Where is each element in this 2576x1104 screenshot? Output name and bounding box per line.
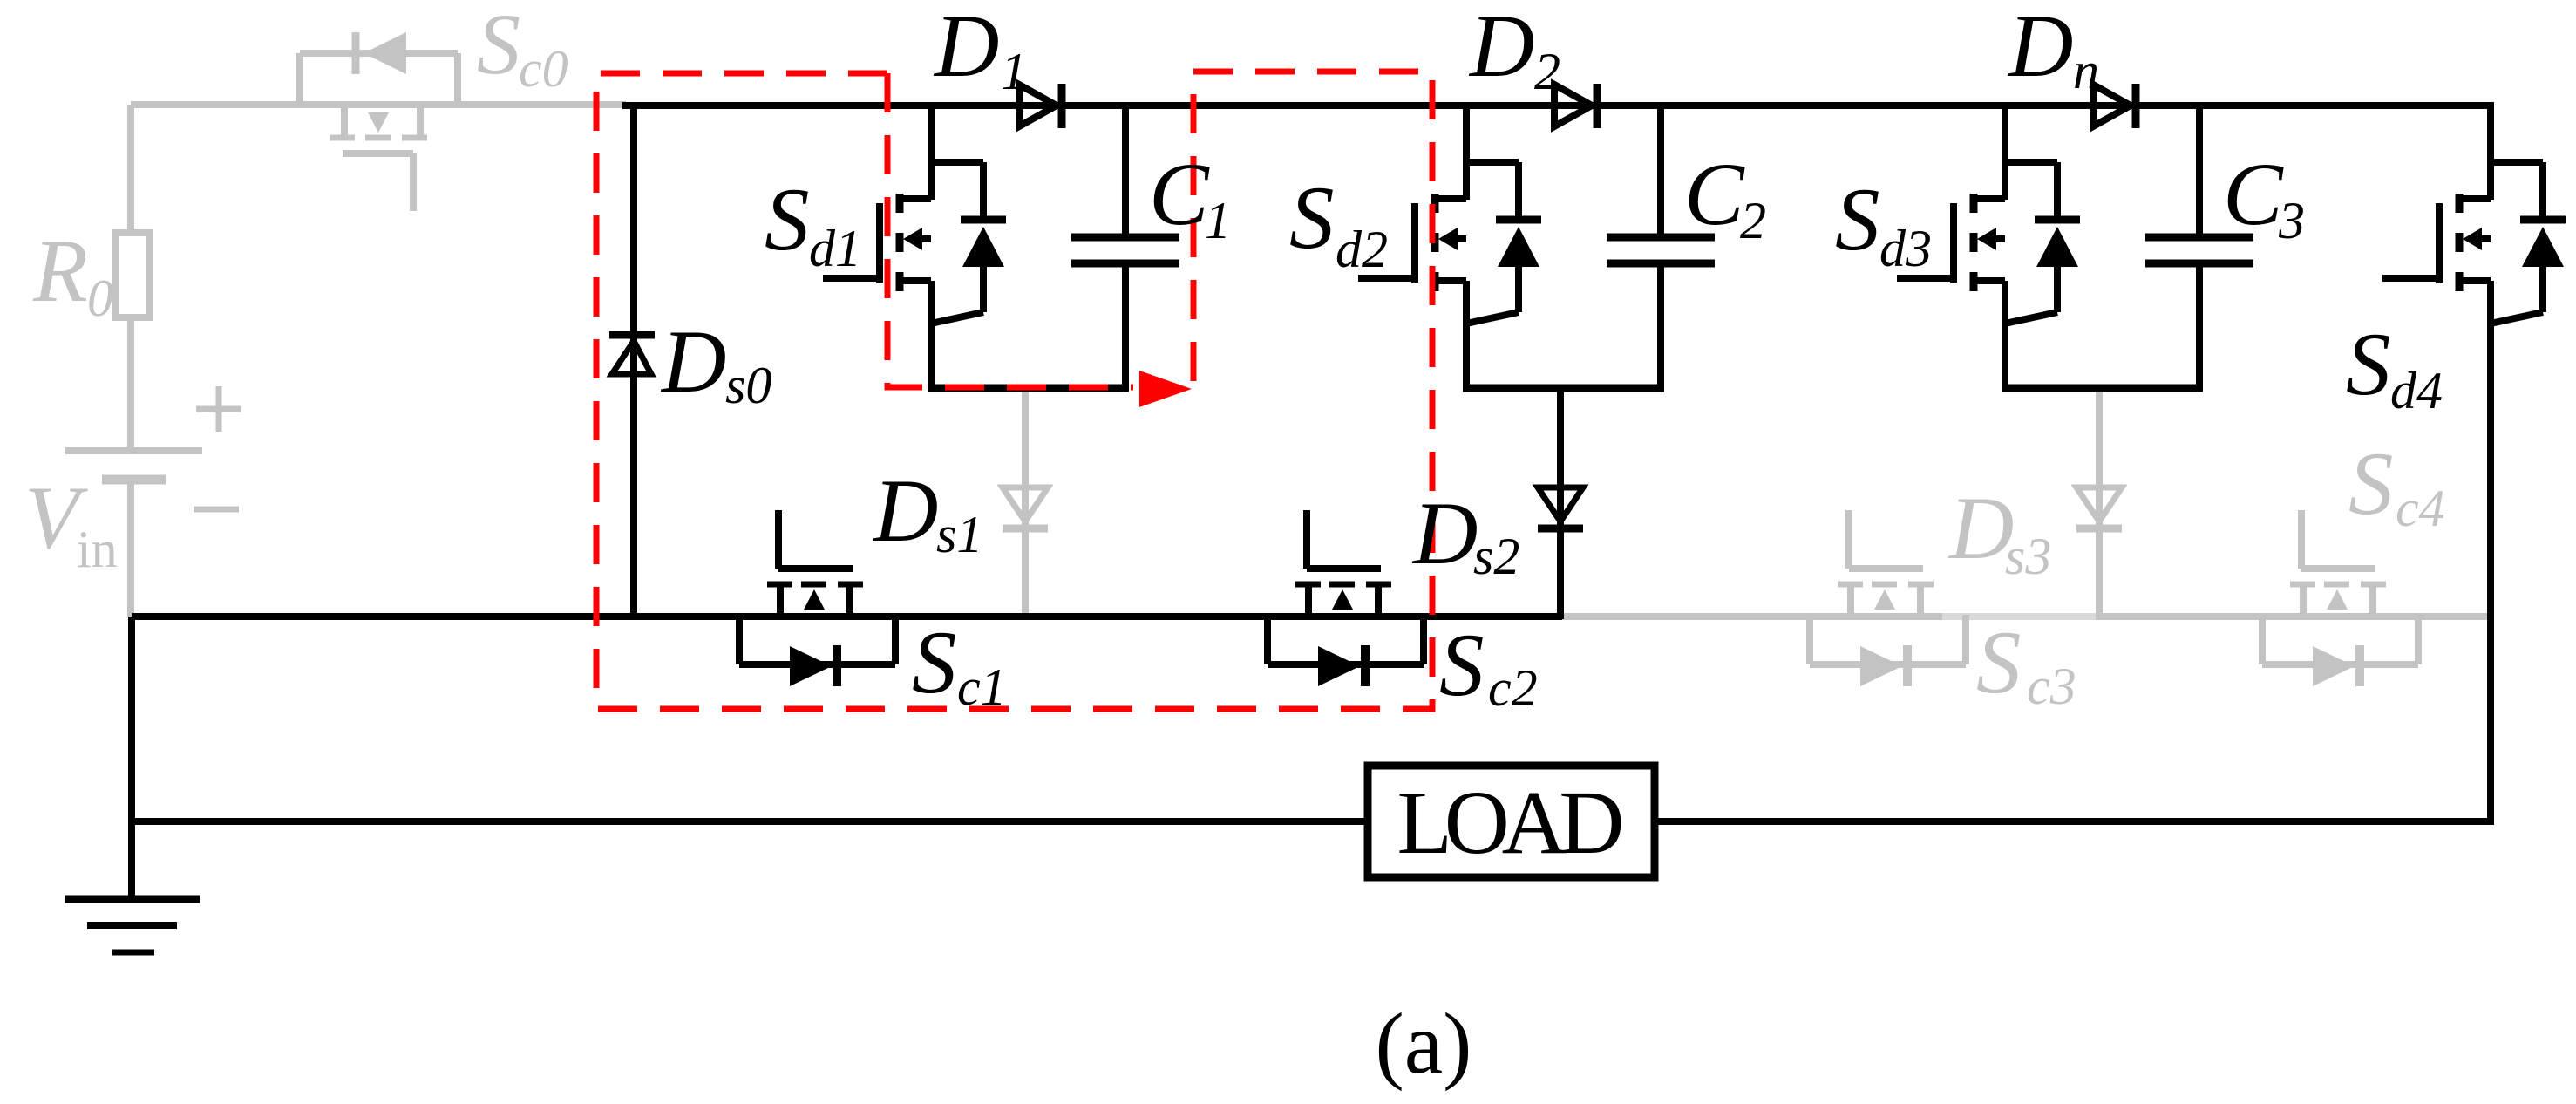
svg-text:c2: c2	[1488, 659, 1538, 717]
svg-text:S: S	[2346, 315, 2391, 414]
svg-text:S: S	[477, 0, 520, 92]
svg-text:c4: c4	[2396, 480, 2445, 537]
svg-text:0: 0	[87, 269, 113, 327]
svg-text:1: 1	[1001, 43, 1027, 100]
svg-text:D: D	[872, 461, 938, 561]
svg-text:c3: c3	[2027, 658, 2076, 715]
svg-text:in: in	[77, 521, 118, 578]
svg-text:D: D	[1411, 484, 1478, 583]
svg-text:2: 2	[1740, 192, 1766, 249]
svg-text:1: 1	[1205, 192, 1231, 249]
svg-text:d4: d4	[2390, 362, 2443, 419]
svg-text:S: S	[912, 613, 957, 712]
svg-text:c0: c0	[519, 40, 568, 98]
svg-text:s0: s0	[725, 357, 771, 414]
svg-text:D: D	[1468, 0, 1534, 96]
svg-text:S: S	[1835, 170, 1880, 269]
svg-text:D: D	[1947, 479, 2014, 578]
svg-text:d3: d3	[1879, 220, 1932, 277]
svg-text:LOAD: LOAD	[1397, 773, 1625, 873]
svg-text:C: C	[1149, 145, 1210, 244]
svg-text:D: D	[933, 0, 999, 96]
svg-text:d1: d1	[809, 220, 861, 277]
svg-text:C: C	[1684, 145, 1745, 244]
svg-text:S: S	[1289, 168, 1335, 268]
svg-text:D: D	[660, 312, 726, 412]
svg-text:S: S	[2348, 434, 2394, 534]
svg-text:d2: d2	[1336, 221, 1388, 278]
svg-text:s2: s2	[1473, 528, 1519, 585]
svg-text:2: 2	[1534, 43, 1560, 100]
svg-text:C: C	[2223, 145, 2284, 244]
svg-text:R: R	[32, 221, 88, 321]
svg-text:S: S	[1976, 613, 2022, 712]
svg-text:3: 3	[2278, 192, 2305, 249]
svg-text:c1: c1	[957, 658, 1007, 716]
svg-text:s1: s1	[936, 506, 982, 563]
svg-text:s3: s3	[2005, 528, 2051, 585]
svg-text:S: S	[765, 170, 810, 269]
svg-text:n: n	[2073, 42, 2099, 99]
svg-text:(a): (a)	[1376, 995, 1472, 1092]
svg-text:D: D	[2007, 0, 2073, 96]
svg-text:S: S	[1439, 616, 1485, 715]
